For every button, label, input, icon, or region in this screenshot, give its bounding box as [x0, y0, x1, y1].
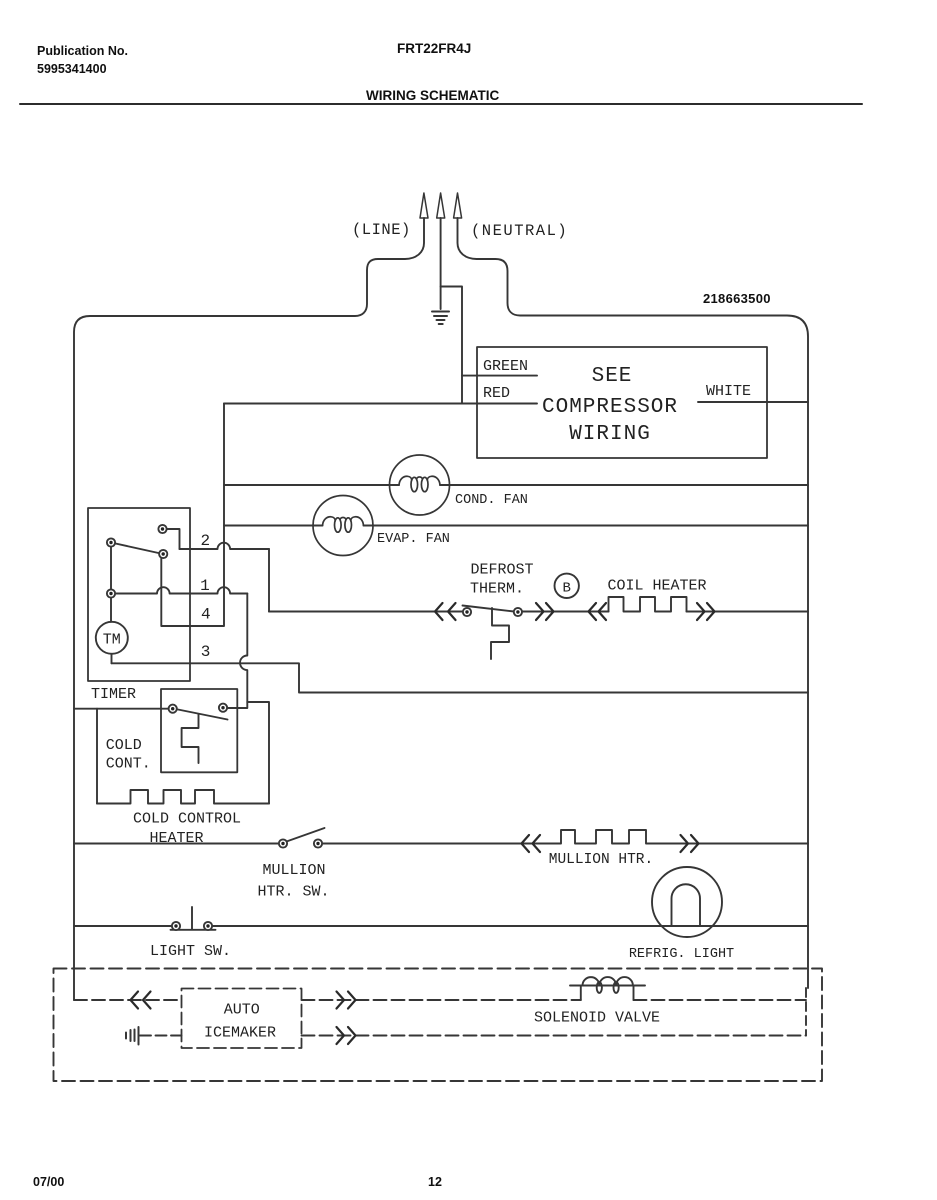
- wire junction to heater right side: [247, 702, 269, 804]
- wire: red feed bus down to timer pin 4: [161, 404, 224, 627]
- mullion wire left: [74, 843, 283, 845]
- timer switch arm: [111, 543, 163, 555]
- wire: ground prong stem: [440, 218, 442, 309]
- svg-text:SOLENOID VALVE: SOLENOID VALVE: [534, 1010, 660, 1027]
- plug prong arrowhead NEUTRAL: [454, 193, 462, 218]
- svg-text:MULLION: MULLION: [262, 862, 325, 879]
- svg-text:07/00: 07/00: [33, 1175, 64, 1189]
- wire WHITE: [698, 401, 808, 403]
- svg-text:COLD CONTROL: COLD CONTROL: [133, 811, 241, 828]
- icemaker upper output dashed wire: [302, 999, 581, 1001]
- timer motor TM: [96, 622, 128, 654]
- svg-text:3: 3: [201, 643, 211, 661]
- svg-text:COIL HEATER: COIL HEATER: [607, 578, 706, 595]
- cold control contacts: [169, 705, 177, 713]
- svg-text:REFRIG. LIGHT: REFRIG. LIGHT: [629, 947, 734, 962]
- wire line1 down with hop over line3: [240, 594, 247, 703]
- icemaker feed dashed wire: [74, 999, 182, 1001]
- icemaker output chevrons lower: [337, 1027, 356, 1044]
- wire: line prong to cabinet outline left side: [74, 218, 424, 1000]
- svg-text:THERM.: THERM.: [470, 581, 524, 598]
- svg-text:Publication No.: Publication No.: [37, 44, 128, 58]
- svg-text:DEFROST: DEFROST: [470, 562, 533, 579]
- cold control heater left wire: [96, 709, 98, 804]
- cold control feed wire: [74, 708, 173, 710]
- wire: cond fan line: [224, 484, 808, 486]
- defrost contacts: [463, 608, 471, 616]
- coil heater right chevrons: [697, 603, 715, 620]
- svg-text:EVAP. FAN: EVAP. FAN: [377, 532, 450, 547]
- plug prong arrowhead LINE: [420, 193, 428, 218]
- ground symbol: [432, 312, 449, 325]
- svg-text:MULLION HTR.: MULLION HTR.: [549, 852, 653, 868]
- cold control box: [161, 689, 237, 772]
- coil heater element: [609, 597, 687, 612]
- svg-text:CONT.: CONT.: [106, 756, 151, 773]
- light switch plunger: [171, 907, 216, 930]
- svg-text:4: 4: [201, 606, 211, 624]
- light wire right: [208, 925, 808, 927]
- svg-text:ICEMAKER: ICEMAKER: [204, 1025, 276, 1042]
- svg-text:RED: RED: [483, 385, 510, 402]
- water valve comb symbol: [126, 1027, 139, 1045]
- compressor wiring box: [477, 347, 767, 458]
- defrost left chevrons: [435, 603, 456, 620]
- cold control heater element: [97, 790, 269, 804]
- bulb filament: [672, 884, 701, 926]
- defrost thermostat wire: [269, 611, 808, 613]
- svg-text:COMPRESSOR: COMPRESSOR: [542, 396, 678, 419]
- evaporator fan motor: [313, 496, 373, 556]
- svg-text:WHITE: WHITE: [706, 383, 751, 400]
- icemaker output chevrons upper: [337, 992, 356, 1009]
- timer box: [88, 508, 190, 681]
- solenoid coil: [583, 977, 633, 985]
- timer wire contact2 to line 2: [163, 529, 180, 549]
- svg-text:FRT22FR4J: FRT22FR4J: [397, 41, 471, 56]
- timer line 3: [112, 663, 809, 692]
- wire TM to contact: [110, 594, 112, 622]
- terminal B circle: [555, 574, 579, 598]
- svg-text:(LINE): (LINE): [352, 221, 411, 239]
- timer line 2 with hop: [180, 543, 270, 549]
- svg-text:12: 12: [428, 1175, 442, 1189]
- svg-text:B: B: [562, 581, 570, 597]
- plug prong arrowhead ground: [437, 193, 445, 218]
- svg-text:SEE: SEE: [592, 365, 633, 388]
- wire GREEN: [462, 375, 537, 377]
- icemaker feed chevrons: [131, 992, 151, 1009]
- defrost thermostat arm: [463, 606, 515, 612]
- dashed right edge stub: [805, 988, 807, 1036]
- cold control capillary step: [182, 714, 199, 763]
- cold control switch arm: [173, 709, 228, 720]
- header rule: [20, 103, 862, 105]
- svg-text:WIRING: WIRING: [569, 423, 651, 446]
- svg-text:GREEN: GREEN: [483, 358, 528, 375]
- svg-text:TIMER: TIMER: [91, 686, 136, 703]
- solenoid coil line: [570, 985, 645, 987]
- auto icemaker dashed box: [182, 989, 302, 1049]
- svg-text:COLD: COLD: [106, 737, 142, 754]
- timer left contacts vertical: [110, 543, 112, 594]
- mullion switch contacts: [279, 839, 287, 847]
- coil heater left chevrons: [589, 603, 715, 620]
- defrost right chevrons: [536, 603, 554, 620]
- svg-text:HTR. SW.: HTR. SW.: [257, 884, 329, 901]
- wire to cold control contact: [227, 702, 247, 708]
- mullion wire right with heater element: [318, 830, 808, 844]
- svg-text:TM: TM: [103, 632, 121, 649]
- svg-text:5995341400: 5995341400: [37, 62, 107, 76]
- svg-text:AUTO: AUTO: [224, 1002, 260, 1019]
- svg-text:LIGHT SW.: LIGHT SW.: [150, 943, 231, 960]
- wire: ground step to green: [441, 287, 462, 404]
- wire RED: [224, 403, 537, 405]
- svg-text:2: 2: [200, 532, 210, 550]
- timer contact pins: [107, 525, 167, 598]
- svg-text:1: 1: [200, 577, 210, 595]
- wire: neutral prong to cabinet outline right side: [458, 218, 809, 988]
- wire: evap fan line: [224, 525, 808, 527]
- refrigerator light bulb: [652, 867, 722, 937]
- solenoid valve steps: [581, 986, 634, 1001]
- defrost capillary step: [491, 608, 509, 659]
- mullion chevrons: [522, 835, 699, 852]
- svg-text:218663500: 218663500: [703, 291, 771, 306]
- timer line 1 with hops: [111, 587, 247, 593]
- wire line2 down to defrost: [268, 549, 270, 612]
- mullion switch arm: [287, 828, 325, 842]
- icemaker dashed compartment box: [54, 969, 823, 1082]
- condenser fan motor: [390, 455, 450, 515]
- svg-text:(NEUTRAL): (NEUTRAL): [471, 222, 568, 240]
- light switch contacts: [172, 922, 180, 930]
- icemaker lower dashed wire: [140, 1035, 182, 1037]
- light switch wire left: [74, 925, 176, 927]
- svg-text:COND. FAN: COND. FAN: [455, 493, 528, 508]
- wire TM to line 3: [111, 654, 113, 664]
- svg-text:WIRING SCHEMATIC: WIRING SCHEMATIC: [366, 88, 499, 103]
